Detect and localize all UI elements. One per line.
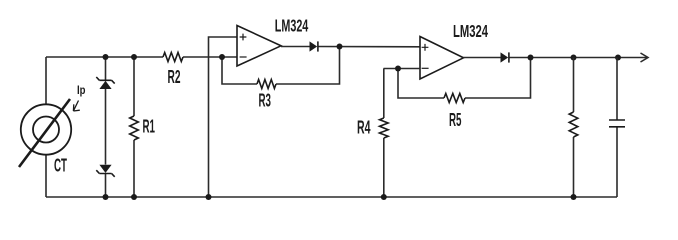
zener diode D1 (cathode up) [96, 77, 114, 89]
node dot op1 + branch bottom [206, 194, 212, 200]
transformer CT inner circle [33, 117, 59, 143]
node dot load resistor bottom [571, 194, 577, 200]
svg-text:R4: R4 [357, 118, 371, 138]
op-amp U2 minus sign [422, 67, 429, 69]
node dot R1 bottom [131, 194, 137, 200]
node dot op1 output node [337, 44, 343, 50]
node dot output feedback tap [528, 55, 534, 61]
svg-text:R5: R5 [449, 110, 462, 130]
resistor R3 zigzag [257, 80, 276, 89]
transformer CT outer circle [21, 104, 71, 154]
node dot R4 bottom [381, 194, 387, 200]
diode D4 [501, 52, 509, 62]
capacitor plates (unlabeled) [609, 120, 625, 127]
wire top rail [46, 56, 237, 58]
op-amp U2 triangle [420, 37, 464, 80]
wire op2 output line with arrow [464, 57, 649, 59]
svg-text:R3: R3 [259, 91, 272, 111]
op-amp U1 triangle [237, 26, 281, 67]
wire left vertical from top rail to CT [45, 57, 47, 197]
svg-text:R2: R2 [168, 67, 181, 87]
wire bottom rail [46, 196, 617, 198]
node dot feedback tap U1 inverting input [219, 54, 225, 60]
node dot zener top [103, 54, 109, 60]
svg-text:CT: CT [54, 155, 67, 176]
output arrowhead [641, 53, 649, 62]
wire zener branch [105, 57, 107, 197]
node dot zener bottom [103, 194, 109, 200]
wire resistor R4 branch [383, 69, 385, 198]
diode D3 [310, 41, 318, 51]
wire load resistor branch [573, 58, 575, 198]
wire op1 output to op2 input [281, 46, 420, 48]
node dot load resistor tap [571, 55, 577, 61]
load resistor zigzag (unlabeled) [569, 112, 578, 137]
wire op2 inverting input line [384, 68, 421, 70]
current arrow Ip [73, 101, 79, 112]
node dot capacitor tap [615, 55, 621, 61]
resistor R2 zigzag [163, 53, 183, 62]
op-amp U1 plus sign [240, 34, 247, 41]
svg-text:LM324: LM324 [453, 21, 488, 41]
svg-text:Ip: Ip [77, 85, 86, 97]
op-amp U1 minus sign [240, 56, 247, 58]
wire R3 feedback loop [222, 47, 340, 85]
wire capacitor branch [616, 58, 618, 198]
transformer CT variable diagonal stroke [19, 99, 70, 167]
resistor R4 zigzag [380, 118, 389, 138]
resistor R5 zigzag [444, 94, 465, 103]
resistor R1 branch wires [133, 57, 135, 197]
resistor R1 zigzag [130, 116, 139, 140]
zener diode D2 (cathode down) [96, 165, 114, 177]
wire op1 noninverting input branch [209, 37, 238, 197]
wire R5 feedback loop [398, 58, 531, 99]
svg-text:LM324: LM324 [275, 16, 309, 36]
op-amp U2 plus sign [422, 44, 429, 51]
node dot R1 top [131, 54, 137, 60]
svg-text:R1: R1 [143, 117, 156, 137]
node dot feedback tap U2 inverting input [395, 66, 401, 72]
